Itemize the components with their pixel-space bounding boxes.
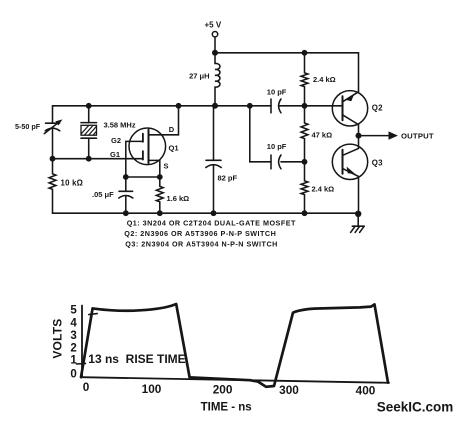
- node top rail / 2.4k junction: [302, 50, 308, 56]
- node output: [356, 133, 362, 139]
- svg-text:Q2: 2N3906 OR A5T3906 P-N-P SW: Q2: 2N3906 OR A5T3906 P-N-P SWITCH: [124, 229, 276, 238]
- svg-text:10 pF: 10 pF: [267, 88, 287, 97]
- svg-text:13 ns RISE TIME: 13 ns RISE TIME: [88, 352, 185, 366]
- node mid rail / coupling branch: [247, 103, 253, 109]
- wire lower coupling to divider: [281, 161, 305, 163]
- svg-text:200: 200: [213, 383, 233, 397]
- wire output arrow: [359, 135, 389, 137]
- node divider mid: [302, 159, 308, 165]
- svg-text:2.4 kΩ: 2.4 kΩ: [312, 184, 335, 193]
- x axis: [82, 377, 389, 383]
- svg-text:VOLTS: VOLTS: [50, 319, 64, 359]
- svg-text:S: S: [164, 161, 169, 170]
- wire Q3 emitter to ground rail: [358, 176, 360, 213]
- svg-text:1.6 kΩ: 1.6 kΩ: [167, 194, 190, 203]
- node mid rail / divider: [302, 103, 308, 109]
- wire source junction row: [126, 176, 160, 178]
- +5 V supply terminal: [212, 32, 217, 37]
- wire Q2 emitter to top rail: [358, 53, 360, 92]
- wire G1 line: [53, 158, 143, 160]
- y axis: [81, 306, 83, 378]
- svg-text:0: 0: [83, 380, 90, 394]
- svg-text:2: 2: [70, 343, 76, 355]
- wire top rail: [215, 52, 359, 54]
- svg-text:2.4 kΩ: 2.4 kΩ: [313, 75, 336, 84]
- node mid rail / drain wire: [176, 103, 182, 109]
- svg-text:G1: G1: [110, 150, 120, 159]
- crystal Y1 3.58 MHz: [88, 106, 90, 123]
- svg-text:27 μH: 27 μH: [189, 72, 209, 81]
- svg-text:TIME - ns: TIME - ns: [201, 402, 252, 414]
- rise time tick high: [89, 314, 97, 315]
- node G2/.05uF: [123, 174, 129, 180]
- capacitor C 5-50pF variable: [52, 106, 54, 123]
- node S/1.6k: [157, 174, 163, 180]
- svg-text:82 pF: 82 pF: [218, 174, 238, 183]
- svg-text:47 kΩ: 47 kΩ: [312, 130, 333, 139]
- node top-rail / supply junction: [212, 50, 218, 56]
- svg-text:Q1: Q1: [169, 143, 180, 152]
- resistor R 2.4k upper: [301, 53, 308, 106]
- svg-text:400: 400: [356, 384, 376, 398]
- svg-text:+5 V: +5 V: [205, 21, 222, 30]
- inductor L 27uH: [215, 53, 220, 106]
- wire coupling branch down and across: [250, 106, 271, 162]
- capacitor C 10pF lower: [270, 155, 272, 169]
- svg-text:3: 3: [70, 330, 76, 342]
- MOSFET Q1 dual-gate: [129, 128, 166, 165]
- svg-text:SeekIC.com: SeekIC.com: [377, 399, 454, 414]
- svg-text:Q3: 2N3904 OR A5T3904 N-P-N SW: Q3: 2N3904 OR A5T3904 N-P-N SWITCH: [125, 240, 278, 249]
- svg-text:5-50 pF: 5-50 pF: [15, 122, 41, 131]
- wire mid rail left section: [53, 105, 272, 107]
- wire Q2 collector to output node: [358, 125, 360, 136]
- svg-text:100: 100: [142, 382, 162, 396]
- waveform trace: [81, 304, 388, 387]
- ground: [357, 214, 359, 226]
- node inductor bottom: [212, 103, 218, 109]
- node bottom rail dots: [123, 210, 129, 216]
- wire G2 lead: [126, 141, 143, 177]
- capacitor C 10pF upper: [270, 99, 272, 113]
- transistor Q3 (NPN): [332, 144, 367, 179]
- svg-text:3.58 MHz: 3.58 MHz: [104, 120, 136, 129]
- wire terminal to top rail: [214, 37, 216, 53]
- svg-text:OUTPUT: OUTPUT: [401, 132, 434, 141]
- svg-text:5: 5: [70, 305, 77, 317]
- resistor R 2.4k lower: [301, 162, 308, 213]
- resistor R 10k: [49, 159, 56, 214]
- capacitor C .05uF: [125, 177, 127, 191]
- svg-text:D: D: [169, 125, 175, 134]
- node G1 crystal: [86, 156, 92, 162]
- resistor R 1.6k: [156, 177, 163, 213]
- resistor R 47k: [301, 106, 308, 162]
- svg-text:4: 4: [70, 318, 77, 330]
- svg-text:Q1: 3N204 OR C2T204 DUAL-GATE: Q1: 3N204 OR C2T204 DUAL-GATE MOSFET: [127, 219, 296, 228]
- svg-text:Q2: Q2: [372, 103, 383, 112]
- wire mid rail right section to Q2 base: [279, 105, 343, 107]
- transistor Q2 (PNP): [332, 91, 367, 126]
- svg-text:0: 0: [70, 368, 76, 380]
- capacitor C 82pF: [213, 106, 215, 161]
- node G1 left: [50, 156, 56, 162]
- graph: [77, 304, 390, 387]
- svg-text:G2: G2: [111, 136, 121, 145]
- svg-text:300: 300: [279, 383, 299, 397]
- wire S lead: [149, 160, 160, 177]
- rise time tick low: [77, 362, 86, 365]
- wire D lead: [149, 106, 179, 135]
- svg-text:10 kΩ: 10 kΩ: [61, 179, 84, 188]
- node mid rail / crystal: [86, 103, 92, 109]
- svg-text:10 pF: 10 pF: [267, 142, 287, 151]
- svg-text:Q3: Q3: [372, 158, 383, 167]
- wire bottom rail: [53, 212, 359, 214]
- wire Q3 collector to output node: [358, 136, 360, 149]
- svg-text:.05 μF: .05 μF: [92, 190, 114, 199]
- svg-text:1: 1: [70, 355, 77, 367]
